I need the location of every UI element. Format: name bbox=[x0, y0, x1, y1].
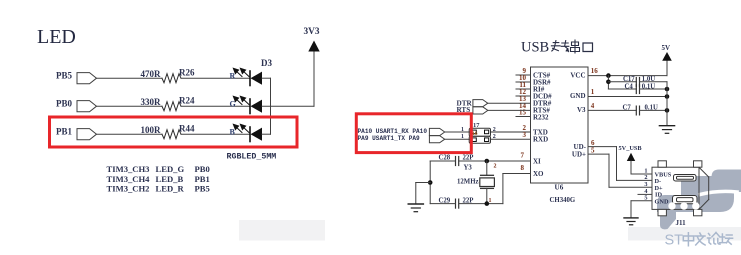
svg-text:1: 1 bbox=[461, 127, 464, 133]
node XI junction bbox=[485, 159, 490, 164]
svg-text:Y3: Y3 bbox=[464, 165, 473, 172]
svg-text:1: 1 bbox=[461, 134, 464, 140]
svg-text:15: 15 bbox=[519, 109, 527, 117]
port PB5 bbox=[56, 70, 97, 83]
port DTR bbox=[457, 100, 488, 108]
pin 14 RTS# bbox=[519, 102, 550, 114]
wire RTS to pin14 bbox=[488, 109, 531, 111]
svg-text:100R: 100R bbox=[141, 125, 162, 135]
wire LED2 to 3V3 line bbox=[262, 105, 314, 107]
capacitor C7 bbox=[623, 105, 668, 115]
capacitor C28 bbox=[439, 155, 474, 166]
svg-text:TIM3_CH2: TIM3_CH2 bbox=[107, 184, 150, 194]
svg-text:2: 2 bbox=[494, 164, 497, 170]
highlight rect PB1 row bbox=[50, 117, 298, 147]
connector slot bottom bbox=[673, 196, 698, 204]
wire PB5 to R26 bbox=[97, 77, 163, 79]
svg-text:R26: R26 bbox=[179, 68, 195, 78]
title USB to serial bbox=[521, 40, 593, 56]
svg-text:V3: V3 bbox=[577, 106, 586, 114]
connector J11 body bbox=[652, 167, 709, 209]
pin 16 VCC bbox=[570, 67, 667, 80]
svg-text:12MHz: 12MHz bbox=[457, 179, 479, 186]
svg-text:TIM3_CH4: TIM3_CH4 bbox=[107, 174, 151, 184]
svg-text:5V_USB: 5V_USB bbox=[619, 145, 643, 152]
svg-text:LED: LED bbox=[37, 26, 76, 48]
watermark bubble top bbox=[712, 170, 741, 193]
table TIM3 mapping bbox=[107, 164, 210, 194]
IC U6 CH340G body bbox=[531, 67, 589, 183]
svg-text:CH340G: CH340G bbox=[550, 197, 576, 204]
power 5V bbox=[662, 44, 672, 61]
svg-text:C4: C4 bbox=[625, 83, 634, 90]
port PB0 bbox=[56, 98, 97, 111]
pin 6 UD- bbox=[574, 139, 617, 151]
wire LED1 to bus bbox=[262, 77, 271, 79]
jumper J16 top bbox=[469, 128, 490, 137]
watermark swoosh bbox=[700, 191, 737, 194]
svg-text:3: 3 bbox=[523, 131, 527, 139]
watermark glyph wen bbox=[695, 233, 705, 245]
svg-text:PB1: PB1 bbox=[195, 174, 210, 184]
node XO junction bbox=[485, 201, 490, 206]
svg-text:LED_R: LED_R bbox=[156, 184, 185, 194]
pin 9 CTS# bbox=[516, 67, 551, 79]
svg-text:PB5: PB5 bbox=[56, 70, 73, 80]
wire to 3V3 bbox=[313, 52, 315, 107]
svg-text:LED_G: LED_G bbox=[156, 164, 185, 174]
svg-text:3: 3 bbox=[644, 181, 647, 188]
node crystal gnd junction bbox=[428, 180, 433, 185]
node rail GND bbox=[665, 94, 670, 99]
watermark glyph lun bbox=[708, 233, 721, 245]
pin 2 TXD bbox=[523, 124, 548, 136]
svg-text:RXD: RXD bbox=[533, 135, 548, 143]
svg-text:5V: 5V bbox=[662, 44, 671, 52]
wire XI row bbox=[430, 160, 530, 162]
pin 11 RI# bbox=[516, 81, 545, 93]
svg-text:XO: XO bbox=[533, 170, 544, 178]
wire DTR to pin13 bbox=[488, 102, 531, 104]
wire PB0 to R24 bbox=[97, 105, 163, 107]
capacitor C4 bbox=[608, 83, 667, 93]
wire PA9 to jumper bbox=[445, 138, 470, 140]
svg-text:PB0: PB0 bbox=[56, 98, 73, 108]
port PA10 bbox=[429, 128, 444, 135]
jumper pin2 numbers bbox=[493, 127, 496, 140]
node rail C4 bbox=[665, 87, 670, 92]
watermark glyph tan bbox=[720, 234, 733, 244]
connector slot top bbox=[674, 175, 697, 182]
svg-text:TIM3_CH3: TIM3_CH3 bbox=[107, 164, 150, 174]
svg-text:4: 4 bbox=[591, 102, 595, 110]
svg-text:USB: USB bbox=[521, 40, 549, 56]
ground rail bbox=[659, 126, 674, 134]
svg-text:C7: C7 bbox=[623, 105, 632, 112]
node VCC junction bbox=[606, 73, 611, 78]
svg-text:5: 5 bbox=[591, 147, 595, 155]
wire LED3 to bus bbox=[262, 133, 271, 135]
svg-text:LED_B: LED_B bbox=[156, 174, 184, 184]
resistor R44 value 100R bbox=[141, 124, 195, 139]
svg-text:J11: J11 bbox=[676, 219, 687, 227]
pin 12 DCD# bbox=[516, 88, 552, 100]
node rail C7 bbox=[665, 108, 670, 113]
wire UD- to D- bbox=[617, 147, 653, 181]
crystal Y3 bbox=[457, 161, 497, 204]
svg-text:PB0: PB0 bbox=[195, 164, 210, 174]
wire VBUS bbox=[631, 173, 652, 175]
jumper J17 bottom bbox=[469, 136, 490, 143]
svg-text:8: 8 bbox=[521, 164, 525, 172]
svg-text:16: 16 bbox=[591, 67, 599, 75]
svg-text:PA10 USART1_RX PA10: PA10 USART1_RX PA10 bbox=[358, 128, 428, 135]
pin 4 V3 bbox=[577, 102, 636, 114]
wire R44 to LED bbox=[181, 133, 250, 135]
watermark tail bbox=[660, 211, 676, 229]
wire XO row bbox=[430, 203, 503, 205]
svg-text:470R: 470R bbox=[141, 69, 162, 79]
wire UD+ to D+ bbox=[609, 154, 652, 187]
pin 1 GND bbox=[570, 88, 667, 100]
svg-text:R24: R24 bbox=[179, 96, 195, 106]
LED D3 green element bbox=[230, 96, 263, 114]
LED D3 blue element bbox=[230, 124, 263, 142]
wire ID stub bbox=[638, 193, 652, 195]
ground usb bbox=[624, 218, 638, 225]
jumper pin1 numbers bbox=[461, 127, 464, 140]
wire R26 to LED bbox=[181, 77, 250, 79]
power 5V_USB bbox=[619, 145, 643, 174]
wire gnd rail bbox=[666, 82, 668, 126]
power 3V3 bbox=[304, 27, 320, 52]
svg-text:GND: GND bbox=[655, 198, 669, 205]
port PA9 bbox=[429, 136, 444, 143]
svg-text:UD+: UD+ bbox=[572, 150, 586, 158]
wire 5V riser bbox=[666, 61, 668, 76]
connector tabs bbox=[658, 161, 702, 216]
svg-text:330R: 330R bbox=[141, 97, 162, 107]
glyph kou bbox=[583, 43, 593, 52]
svg-text:PA9 USART1_TX PA9: PA9 USART1_TX PA9 bbox=[358, 135, 421, 142]
wire jumper to RXD bbox=[491, 138, 531, 140]
wire GND to ground bbox=[631, 201, 652, 218]
pin 10 DSR# bbox=[516, 74, 551, 86]
wire to crystal ground bbox=[416, 183, 430, 204]
svg-text:U6: U6 bbox=[555, 184, 564, 192]
svg-text:PB1: PB1 bbox=[56, 126, 73, 136]
wire crystal left leg bbox=[429, 161, 431, 204]
wire LED anode bus bbox=[270, 78, 272, 134]
LED D3 red element bbox=[230, 68, 263, 86]
svg-text:7: 7 bbox=[521, 152, 525, 160]
wire jumper to TXD bbox=[491, 131, 531, 133]
svg-text:C17: C17 bbox=[623, 76, 635, 83]
resistor R26 value 470R bbox=[141, 68, 195, 83]
pin 7 XI bbox=[521, 152, 542, 166]
svg-text:1: 1 bbox=[591, 88, 595, 96]
pin 13 DTR# bbox=[519, 95, 552, 107]
watermark dots bbox=[668, 202, 699, 209]
watermark light block right bbox=[628, 227, 741, 241]
pin 15 R232 bbox=[516, 109, 549, 122]
svg-text:GND: GND bbox=[570, 92, 586, 100]
wire XO up to pin8 bbox=[503, 174, 531, 204]
port RTS bbox=[457, 106, 488, 114]
glyph chuan bbox=[571, 40, 580, 53]
ground crystal bbox=[408, 204, 423, 212]
svg-text:XI: XI bbox=[533, 157, 541, 165]
svg-text:17: 17 bbox=[473, 122, 480, 129]
svg-text:PB5: PB5 bbox=[195, 184, 210, 194]
wire R24 to LED bbox=[181, 105, 250, 107]
node C17 junction bbox=[606, 80, 611, 85]
svg-text:VCC: VCC bbox=[570, 72, 585, 80]
watermark bubble left bbox=[657, 195, 700, 212]
watermark bubble mid bbox=[681, 176, 734, 212]
wire VCC cap branch bbox=[607, 76, 609, 89]
wire PB1 to R44 bbox=[97, 133, 163, 135]
svg-text:RGBLED_5MM: RGBLED_5MM bbox=[227, 153, 277, 162]
watermark light block left bbox=[239, 220, 325, 241]
svg-text:ST: ST bbox=[665, 233, 684, 249]
connector pin labels bbox=[655, 171, 672, 205]
capacitor C29 bbox=[439, 198, 474, 209]
port PB1 bbox=[56, 126, 97, 140]
svg-text:R44: R44 bbox=[179, 124, 195, 134]
pin 3 RXD bbox=[523, 131, 549, 144]
svg-text:D3: D3 bbox=[261, 58, 272, 68]
watermark glyph zhong bbox=[683, 233, 693, 246]
capacitor C17 bbox=[608, 76, 667, 86]
highlight rect USART bbox=[356, 114, 471, 153]
connector pin numbers bbox=[644, 168, 648, 202]
pin 5 UD+ bbox=[572, 147, 609, 159]
resistor R24 value 330R bbox=[141, 96, 195, 111]
svg-text:R232: R232 bbox=[533, 113, 549, 121]
wire PA10 to jumper bbox=[445, 131, 470, 133]
pin 8 XO bbox=[521, 164, 545, 178]
svg-text:3V3: 3V3 bbox=[304, 27, 320, 37]
glyph zhuan bbox=[551, 41, 568, 52]
